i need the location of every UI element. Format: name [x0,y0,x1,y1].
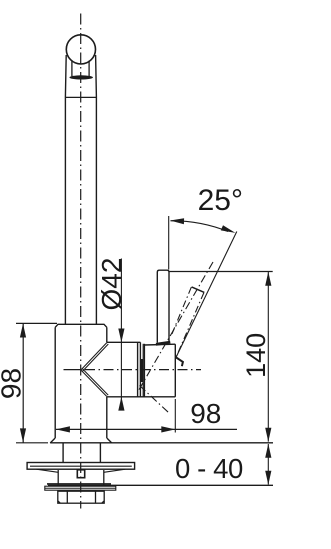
angle slanted leg [176,232,237,358]
base skirt [50,438,112,443]
spout column [65,55,96,324]
outlet cylinder [107,342,176,397]
svg-text:25°: 25° [198,184,243,217]
body sides [55,327,107,438]
phantom axis [139,262,214,391]
dia42 leader line [120,259,122,411]
svg-text:98: 98 [190,398,221,429]
lever handle (vertical) [157,270,169,342]
shank washer dark top line [47,483,111,485]
dim 0-40: dimension line [267,444,269,485]
svg-text:Ø42: Ø42 [96,258,127,311]
hub [58,470,104,485]
cone vertex solid centerline segment [64,369,81,371]
aerator outlet [69,75,93,79]
horizontal centerline [85,369,201,371]
dim 140: arrow up [265,272,271,286]
dim 98 left: arrow down [20,428,26,442]
cone lines [81,343,108,397]
seam dark band [142,344,144,397]
dim 0-40: arrow down [265,471,271,485]
angle vertical leg [168,216,170,270]
nut [58,491,104,503]
dim 140: arrow down [265,428,271,442]
angle arc [171,221,229,232]
phantom axis lower [140,386,169,413]
aerator housing [72,61,89,77]
dim 98 bottom: extension line [174,399,176,433]
svg-text:98: 98 [0,368,26,399]
phantom step flag [176,357,183,366]
body shoulder [55,324,107,327]
svg-text:0 - 40: 0 - 40 [175,453,243,484]
head block [144,344,175,397]
dia42 arrow up [118,397,124,411]
spout head circle [66,35,95,64]
dim 98 left: arrow up [20,324,26,338]
arc arrowhead right [221,225,236,233]
dim 98 bottom: dimension line [56,428,237,430]
dia42 arrow down [118,329,124,343]
arc arrowhead left [170,218,184,224]
column joint line [65,96,96,98]
shank washer [45,486,116,490]
dim 98 bottom: arrow right [161,426,175,432]
dim 140: dimension line [267,272,269,442]
pin [77,470,84,478]
counter top line [50,442,273,444]
dim 98 bottom: arrow left [56,426,70,432]
mounting stem [63,443,100,463]
phantom lever outline [192,287,205,293]
dim 98 left: dimension line [22,323,24,442]
dim 98 left: extension lines [16,322,57,324]
lever base thick line [156,342,170,344]
vertical centerline [80,14,82,509]
escutcheon plate [27,463,135,473]
counter bottom line [48,484,273,486]
dim 0-40: arrow up [265,444,271,458]
handle top ref line [169,271,273,273]
svg-text:140: 140 [241,333,271,378]
